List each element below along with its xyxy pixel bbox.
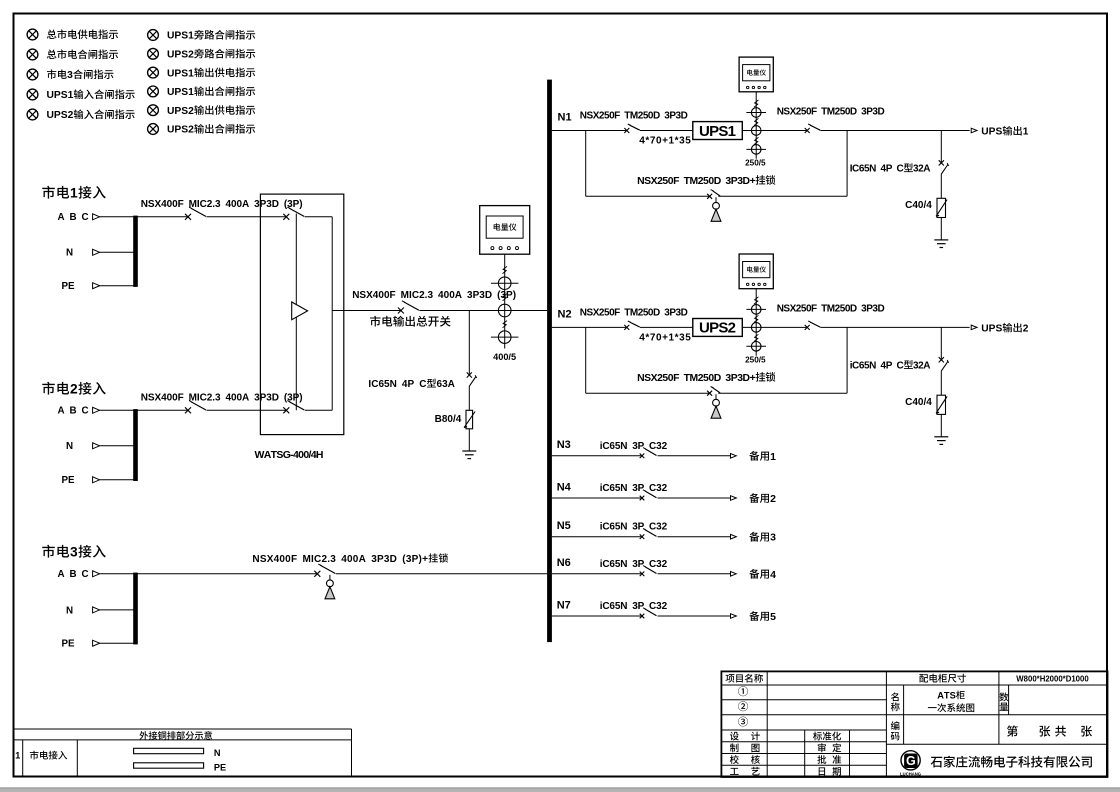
label 备用5 [749,611,759,621]
wire bypass right [846,327,848,393]
CT mains phase C [498,331,511,344]
label ② [738,701,748,711]
indicator lamp UPS2旁路合闸指示 [148,48,159,59]
svg-text:1: 1 [1023,127,1029,138]
wire [207,216,287,218]
svg-text:UPS1: UPS1 [167,31,194,42]
label 标准化 [813,732,822,741]
CT UPS2 main [751,323,761,333]
label 备用4 [749,569,759,579]
label 市电接入 [30,751,39,760]
wire [940,131,942,163]
title block frame [721,671,1107,777]
ATS transfer switch box WATSG-400/4H [260,194,343,435]
svg-text:W800*H2000*D1000: W800*H2000*D1000 [1016,674,1089,683]
svg-text:5: 5 [770,611,776,623]
measurement mark [754,334,758,341]
label ① [738,686,748,696]
wire [137,409,188,411]
label 数量 [1000,692,1009,701]
arrow spare 4 [731,572,737,577]
indicator lamp UPS1输出合闸指示 [148,86,159,97]
bottom page edge strip [0,787,1120,788]
power meter UPS1 [739,57,773,92]
label 一次系统图 [928,706,937,709]
svg-text:LUCHANG: LUCHANG [900,772,921,777]
ground mains output SPD [462,450,476,452]
measurement mark [503,294,507,301]
wire [552,130,627,132]
wire [658,615,731,617]
measurement mark [754,297,758,304]
wire [718,195,847,197]
padlock mains3 [329,575,331,580]
svg-text:iC65N 3P C32: iC65N 3P C32 [600,559,668,570]
svg-text:PE: PE [62,281,76,292]
wire bypass right [846,131,848,197]
wire bypass bottom [586,392,710,394]
label 项目名称 [726,674,735,682]
wire [940,327,942,359]
svg-text:N: N [66,441,73,452]
wire [552,326,627,328]
wire [100,642,136,644]
svg-text:G: G [906,754,916,768]
company logo [901,751,920,770]
wire [552,573,642,575]
indicator lamp UPS2输出合闸指示 [148,124,159,135]
mains 3 input busbar [133,573,138,645]
svg-text:NSX250F TM250D 3P3D+: NSX250F TM250D 3P3D+ [637,373,756,384]
label 审定 [818,743,826,752]
wire [742,130,807,132]
wire [137,216,188,218]
label 石家庄流畅电子科技有限公司 [931,757,943,768]
svg-text:UPS2: UPS2 [167,106,194,117]
label 工艺 [730,768,739,775]
breaker spare 3 iC65N 3P C32 [640,534,645,539]
wire [940,371,942,395]
svg-text:N6: N6 [557,557,571,569]
busbar PE drawing [134,763,204,768]
label 编码 [891,721,900,730]
label 制图 [730,743,739,752]
wire [100,479,136,481]
breaker QF4 output NSX400F [398,308,404,314]
svg-text:2: 2 [70,382,78,397]
svg-text:2: 2 [1023,324,1029,335]
wire [100,609,136,611]
title block grid [721,684,1107,686]
svg-text:3: 3 [770,532,776,544]
wire [658,573,731,575]
svg-text:iC65N 4P C: iC65N 4P C [850,361,904,372]
wire [100,445,136,447]
svg-text:3: 3 [70,545,78,560]
CT UPS2 phase A [751,305,761,315]
wire ATS output [332,310,401,312]
indicator lamp UPS1旁路合闸指示 [148,30,159,41]
svg-text:NSX250F TM250D 3P3D: NSX250F TM250D 3P3D [777,303,885,314]
svg-text:250/5: 250/5 [745,356,766,365]
label 配电柜尺寸 [919,674,928,682]
svg-text:IC65N 4P C: IC65N 4P C [368,379,426,390]
label 市电3接入 [42,545,55,558]
surge arrester B80/4 [466,410,473,429]
measurement mark [754,118,758,125]
label 市电1接入 [42,186,55,199]
svg-text:NSX400F MIC2.3 400A 3P3D (3P)+: NSX400F MIC2.3 400A 3P3D (3P)+ [252,554,428,565]
svg-text:UPS1: UPS1 [167,68,194,79]
label 备用2 [749,493,759,503]
indicator lamp 市电3合闸指示 [27,69,38,80]
power meter UPS2 [739,254,773,289]
breaker IC65N 4P C 63A [467,372,472,377]
wire [100,573,134,575]
ground UPS1 SPD [934,239,948,241]
svg-text:UPS1: UPS1 [699,123,736,140]
svg-text:NSX250F TM250D 3P3D+: NSX250F TM250D 3P3D+ [637,176,756,187]
label 市电2接入 [42,382,55,395]
svg-text:NSX250F TM250D 3P3D: NSX250F TM250D 3P3D [580,111,688,122]
svg-text:IC65N 4P C: IC65N 4P C [850,164,904,175]
indicator lamp UPS2输出供电指示 [148,105,159,116]
wire meter to CT [755,92,757,159]
indicator lamp 总市电合闸指示 [27,49,38,60]
svg-text:C40/4: C40/4 [905,397,932,408]
label 市电输出总开关 [370,316,381,327]
wire [552,455,642,457]
svg-text:1: 1 [70,186,78,201]
arrow output UPS2 [971,325,977,330]
svg-text:N4: N4 [557,481,572,493]
wire [640,130,693,132]
measurement mark [503,321,507,328]
wire [305,409,332,411]
wire [207,409,287,411]
svg-text:B80/4: B80/4 [435,414,462,425]
svg-text:400/5: 400/5 [493,352,516,362]
indicator lamp UPS2输入合闸指示 [27,109,38,120]
main distribution busbar [547,80,552,643]
svg-text:UPS2: UPS2 [47,110,74,121]
label 校核 [730,755,739,764]
breaker output UPS1 NSX250F [805,128,810,133]
wire [552,615,642,617]
svg-text:UPS1: UPS1 [167,87,194,98]
wire [468,311,470,376]
label ③ [738,717,748,727]
UPS1 box [693,122,743,140]
CT mains main line [498,304,511,317]
mains 2 input busbar [133,409,138,481]
breaker spare 1 iC65N 3P C32 [640,454,645,459]
svg-text:iC65N 3P C32: iC65N 3P C32 [600,601,668,612]
svg-text:NSX400F MIC2.3 400A 3P3D (3P): NSX400F MIC2.3 400A 3P3D (3P) [141,199,303,210]
ATS inner vertical right rail [331,217,333,410]
busbar N drawing [134,748,204,753]
arrow spare 1 [731,454,737,459]
wire [100,251,136,253]
wire [468,429,470,451]
wire bypass bottom [586,195,710,197]
CT UPS1 phase A [751,108,761,118]
svg-text:UPS: UPS [981,324,1002,335]
breaker iC65N 4P C 32A UPS2 [939,357,944,362]
wire [820,130,969,132]
measurement mark [754,100,758,107]
svg-text:N2: N2 [558,309,572,321]
svg-text:iC65N 3P C32: iC65N 3P C32 [600,483,668,494]
svg-text:iC65N 3P C32: iC65N 3P C32 [600,522,668,533]
svg-text:N5: N5 [557,520,571,532]
svg-text:NSX400F MIC2.3 400A 3P3D (3P): NSX400F MIC2.3 400A 3P3D (3P) [352,290,516,301]
breaker spare 2 iC65N 3P C32 [640,496,645,501]
svg-text:N: N [66,248,73,259]
wire meter to CT [504,254,506,348]
indicator lamp 总市电供电指示 [27,29,38,40]
breaker input UPS1 NSX250F [624,128,629,133]
breaker QF2 mains2 NSX400F [185,407,191,413]
svg-text:250/5: 250/5 [745,159,766,168]
external busbar table [14,728,352,730]
svg-text:UPS1: UPS1 [47,90,74,101]
indicator lamp UPS1输出供电指示 [148,67,159,78]
arrow spare 5 [731,614,737,619]
svg-text:2: 2 [770,493,776,505]
CT mains phase A [498,277,511,290]
wire [658,536,731,538]
svg-text:N7: N7 [557,599,571,611]
breaker output UPS2 NSX250F [805,325,810,330]
arrow spare 3 [731,534,737,539]
CT UPS1 main [751,126,761,136]
ATS actuator triangle [292,302,308,320]
label 批准 [817,755,826,764]
CT UPS2 phase C [751,342,761,352]
svg-text:A B C: A B C [58,212,89,223]
label 名称 [891,692,899,701]
svg-text:4*70+1*35: 4*70+1*35 [639,136,691,147]
wire meter to CT [755,289,757,356]
breaker ATS pole mains2 [283,407,289,413]
wire [640,326,693,328]
label 备用1 [749,451,759,461]
breaker ATS pole mains1 [283,214,289,220]
breaker input UPS2 NSX250F [624,325,629,330]
label 日期 [819,767,825,775]
wire [552,536,642,538]
svg-text:PE: PE [62,639,76,650]
padlock bypass UPS2 [715,394,717,399]
mains 1 input busbar [133,216,138,287]
breaker spare 5 iC65N 3P C32 [640,614,645,619]
svg-text:32A: 32A [913,164,930,175]
svg-text:ATS: ATS [937,691,956,701]
wire [137,573,317,575]
arrow spare 2 [731,496,737,501]
wire [419,310,547,312]
svg-text:UPS2: UPS2 [699,320,736,337]
svg-text:UPS: UPS [981,127,1002,138]
wire [552,497,642,499]
svg-text:1: 1 [770,451,776,463]
surge arrester C40/4 UPS2 [937,395,946,414]
wire bypass left [585,327,587,393]
svg-text:A B C: A B C [58,406,89,417]
svg-text:3: 3 [67,70,73,81]
svg-text:N1: N1 [558,112,572,124]
label 第 张 共 张 [1007,725,1018,736]
wire [100,409,134,411]
svg-text:32A: 32A [913,361,930,372]
svg-text:PE: PE [62,475,76,486]
svg-text:N: N [66,605,73,616]
label 设计 [730,732,739,741]
UPS2 box [693,319,743,337]
svg-text:63A: 63A [437,379,455,390]
svg-text:4: 4 [770,569,776,581]
wire [742,326,807,328]
wire [336,573,547,575]
svg-text:PE: PE [214,763,226,773]
wire [940,218,942,240]
svg-text:NSX250F TM250D 3P3D: NSX250F TM250D 3P3D [580,307,688,318]
wire [658,455,731,457]
CT UPS1 phase C [751,145,761,155]
breaker bypass UPS1 NSX250F with padlock [707,194,712,199]
wire [940,414,942,436]
arrow output UPS1 [971,128,977,133]
surge arrester C40/4 UPS1 [937,198,946,217]
svg-text:NSX400F MIC2.3 400A 3P3D (3P): NSX400F MIC2.3 400A 3P3D (3P) [141,393,303,404]
power meter mains [480,206,530,255]
measurement mark [503,266,507,273]
breaker IC65N 4P C 32A UPS1 [939,160,944,165]
breaker QF1 mains1 NSX400F [185,214,191,220]
padlock bypass UPS1 [715,197,717,202]
breaker bypass UPS2 NSX250F with padlock [707,391,712,396]
svg-text:N: N [214,748,221,758]
breaker spare 4 iC65N 3P C32 [640,572,645,577]
ground UPS2 SPD [934,436,948,438]
label 备用3 [749,532,759,542]
svg-text:C40/4: C40/4 [905,200,932,211]
svg-text:iC65N 3P C32: iC65N 3P C32 [600,441,668,452]
measurement mark [754,315,758,322]
measurement mark [754,137,758,144]
svg-text:A B C: A B C [58,569,89,580]
indicator lamp UPS1输入合闸指示 [27,89,38,100]
svg-text:NSX250F TM250D 3P3D: NSX250F TM250D 3P3D [777,107,885,118]
ATS inner vertical left rail [295,214,297,411]
wire [940,175,942,199]
wire [468,387,470,411]
svg-text:4*70+1*35: 4*70+1*35 [639,333,691,344]
svg-text:N3: N3 [557,439,571,451]
svg-text:1: 1 [15,751,20,761]
svg-text:UPS2: UPS2 [167,50,194,61]
wire bypass left [585,131,587,197]
wire [100,216,134,218]
wire [305,216,332,218]
wire [658,497,731,499]
wire [718,392,847,394]
svg-text:UPS2: UPS2 [167,125,194,136]
svg-text:WATSG-400/4H: WATSG-400/4H [255,449,323,461]
wire [100,285,136,287]
wire [820,326,969,328]
label 外接铜排部分示意 [139,731,148,740]
breaker QF3 mains3 NSX400F with padlock [314,571,320,577]
